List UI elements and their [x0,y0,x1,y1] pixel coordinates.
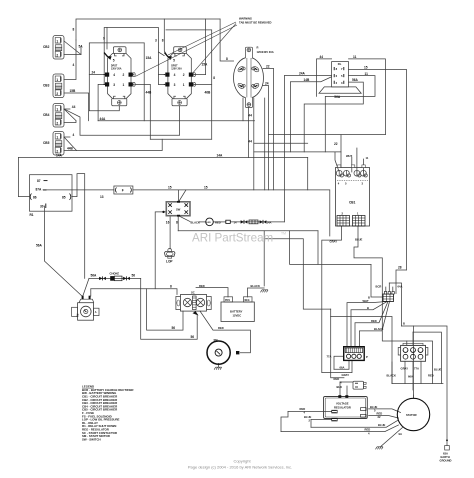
wire: relay1 pin5 drop [106,28,108,50]
wire: regulator top pins [339,382,341,396]
wire: CB1 blue bottom [354,226,382,341]
svg-text:77A: 77A [327,355,332,359]
wire: reg right red 22 [369,416,399,418]
connector CB3 [53,74,64,98]
wire: LED row [199,221,206,223]
wire: BCR pins top [385,287,387,294]
wire: C85 pin2 [64,47,81,55]
wire: SC to SM red [200,311,250,353]
svg-text:30: 30 [40,204,44,208]
svg-text:BLACK: BLACK [387,374,396,378]
svg-text:66A: 66A [340,365,345,369]
wire: relay2 tab feed a [158,52,164,56]
svg-text:BCR: BCR [376,285,382,289]
svg-text:SW: SW [176,207,181,211]
ground under SM [214,367,222,370]
wire: recep right 22 [263,69,274,190]
screws [242,67,245,70]
svg-text:POS: POS [225,300,230,302]
svg-text:56A: 56A [334,95,341,99]
svg-text:15: 15 [364,65,368,69]
wire: recep bottom drop 1 [242,98,244,121]
svg-text:GRAY: GRAY [342,373,350,377]
svg-text:8: 8 [226,57,228,61]
wire: 15 line junction riser / 24A drop [283,76,285,222]
wire: stator top into circle [412,395,414,398]
svg-text:15: 15 [204,186,208,190]
top screw terminals [336,170,367,177]
wire: H bus y=151.9 [254,151,341,153]
wire: relay1 pin1 44B [135,84,150,139]
svg-text:GROUND: GROUND [440,459,452,463]
svg-text:22: 22 [378,415,381,419]
wire: 8 line to SC [91,289,177,295]
slot TL [237,66,245,73]
svg-text:14A: 14A [56,153,63,157]
svg-text:WARNING: WARNING [239,17,252,21]
svg-text:22: 22 [266,64,270,68]
svg-text:RED: RED [428,374,434,378]
svg-text:28: 28 [398,266,402,270]
wire: blue 2 drop [310,420,312,428]
svg-text:RED: RED [377,412,383,416]
fuel solenoid FS [72,296,99,321]
regulator connector plug [334,377,367,389]
svg-text:11: 11 [353,55,357,59]
svg-text:16: 16 [166,221,170,225]
svg-text:56A: 56A [91,274,98,278]
svg-text:4: 4 [73,133,75,137]
wire: BCR pin right [392,287,394,294]
svg-text:CHOKE: CHOKE [110,271,120,275]
wire: regulator left blue 2 [311,419,332,421]
svg-text:14A: 14A [267,220,272,224]
svg-text:44: 44 [320,55,324,59]
svg-text:R: R [257,45,259,49]
wire: CB1 terminal 5 feed [351,157,353,172]
wire: harness box stub [330,309,332,316]
wire: cross H 143 [254,142,308,144]
wire: C85 pin1 diagonal [64,41,81,55]
svg-text:CB3: CB3 [43,84,50,88]
wire: SM ground stub [218,363,220,367]
wire: relay2 loop top [158,74,163,76]
wire: CB1 terminal 3 feed [362,159,364,172]
wire: regulator left red 4 [288,411,332,413]
svg-text:RED: RED [199,284,205,288]
wire: relay1 pin4 [89,74,103,76]
wire: relay2 pin2 [195,19,206,75]
svg-text:56: 56 [191,335,195,339]
wire: right conn box top [413,332,441,383]
connector CB4 [53,104,64,128]
svg-text:BLUE: BLUE [434,367,442,371]
wire: relay loop top y=27.5 [104,28,158,85]
wire: SW top riser [178,190,180,202]
svg-text:85: 85 [62,195,66,199]
wire: SW diagonal riser [179,190,187,202]
wire: SW bottom left 16 [169,216,171,249]
svg-text:15: 15 [168,186,172,190]
svg-text:LOP: LOP [166,260,173,264]
svg-text:77A: 77A [414,366,419,370]
wire: C83 pin1 diagonal [64,109,76,121]
wire: RL 11 wrap loop [325,76,375,152]
svg-text:8: 8 [176,221,178,225]
svg-text:B: B [403,321,405,325]
wire: recep bottom drop 3 [264,98,266,190]
wire: C86 pin1 [64,136,70,138]
svg-text:EARTH: EARTH [441,455,450,459]
svg-text:CB4: CB4 [43,113,50,117]
wire: CB1 22 feed [340,135,342,168]
wire: right conn bottom 66A [412,361,414,390]
wire: bottom H under conns [392,383,443,385]
svg-text:56A: 56A [36,244,43,248]
wire: RL 56A right [304,82,363,152]
svg-text:B: B [368,295,370,299]
wire: H y=134.6 to CB1 [269,134,386,136]
voltage regulator [300,395,386,435]
wire: 14A led line [230,221,284,223]
connector P (left) [327,347,369,377]
wire: recep bottom drop 2 [253,98,255,190]
wire: CB1 gray bottom [322,226,352,373]
wire: SC red to battery [196,288,228,297]
wire: SW left [155,212,166,289]
wire: RL 15 right long [349,69,407,270]
wire: relay2 pin3 stub [158,83,163,85]
svg-text:RED: RED [365,428,371,432]
svg-text:BLUE: BLUE [370,405,378,409]
svg-text:B: B [367,306,369,310]
LOP low oil pressure sender [164,248,175,263]
wire: relay1 pin3 [98,84,103,120]
svg-text:RED: RED [334,377,340,381]
slot BL [237,82,245,89]
wire: P conn left 77A [334,356,344,369]
svg-text:LED: LED [206,222,211,224]
svg-text:22: 22 [334,142,338,146]
relay K2 [164,47,196,106]
svg-text:RED: RED [371,319,377,323]
svg-text:NEG: NEG [245,300,250,302]
wire: R1-30 down [44,206,82,297]
legend [82,385,134,442]
wire: BCR fan B [351,302,387,347]
wire: BCR top feed [396,270,406,294]
wire: relay2 tab feed [164,19,166,55]
wire: drop to battery ground [263,231,265,286]
svg-text:BATTERY: BATTERY [230,310,243,314]
warning note [135,17,271,77]
wire: choke drop to SM area [141,278,198,339]
svg-text:86: 86 [33,195,37,199]
wire: harness box top/right [331,317,392,384]
svg-text:11: 11 [365,72,369,76]
svg-text:BLACK: BLACK [374,327,383,331]
LED indicator [191,218,272,226]
wire: black riser left of conn [391,362,393,384]
svg-text:RL: RL [338,62,342,66]
svg-text:RED: RED [215,220,221,224]
wire: bottom red 4 to stator [281,425,399,432]
wire: right conn top pin 2 [406,341,408,345]
wire: top bus y=19 [76,19,220,40]
svg-text:66A: 66A [408,375,413,379]
wire: relay2 pin1 46B [195,83,212,85]
svg-text:9A: 9A [399,432,402,436]
wire: battery net to harness box [264,239,331,309]
wire: C86 pin2 44B [64,139,162,150]
svg-text:BLACK: BLACK [191,220,200,224]
wire: 14A long bus [18,157,307,159]
wire: R1-85 right [72,174,85,279]
svg-text:BLUE: BLUE [304,415,312,419]
svg-text:RED: RED [300,407,306,411]
svg-text:14A: 14A [217,153,224,157]
wire: CB1 top feeds [335,152,339,171]
svg-text:BLUE: BLUE [355,238,363,242]
wire: battery neg black to gnd [248,288,265,297]
wire: 14A to R1-86 [18,158,29,197]
svg-text:CB1: CB1 [349,201,356,205]
starter motor SM [207,338,239,370]
svg-text:14: 14 [234,220,237,224]
svg-text:15B: 15B [70,89,77,93]
svg-text:RED: RED [218,326,224,330]
wire: C84 pin2 15B [64,93,89,121]
bottom lug 1 [353,211,366,226]
connector arrows on led line [241,220,248,224]
wire: SW bottom to LED [179,216,191,222]
battery [221,284,268,322]
wire: right conn bottoms [404,361,406,383]
wire: reg plug pin 2 [346,386,348,396]
svg-text:SW - SWITCH: SW - SWITCH [82,437,101,441]
start contactor SC [176,284,211,316]
wire: recep right 24 [263,86,269,190]
svg-text:56: 56 [132,274,136,278]
svg-text:44: 44 [72,105,76,109]
svg-text:63A: 63A [443,451,448,455]
svg-text:56A: 56A [352,78,359,82]
svg-text:9: 9 [103,36,105,40]
svg-text:R1: R1 [30,213,34,217]
stator [376,398,430,449]
wire: jog x289 to gray riser [290,231,371,265]
svg-text:BLUE: BLUE [378,423,386,427]
wire: recep bottom drop tab [248,108,250,158]
wire: 14A riser to 15 line [308,158,330,237]
battery charge rectifier BCR [363,285,406,332]
wire: right conn bottom RED [420,361,422,383]
svg-text:56: 56 [172,326,176,330]
wire: 87A to fuse to 15 line [43,189,114,191]
wire: BCR fan WHT [347,302,386,347]
svg-text:44B: 44B [146,90,153,94]
svg-text:BLK: BLK [337,385,343,389]
wire: stator top feed [412,326,414,398]
svg-text:VOLTAGE: VOLTAGE [336,401,349,405]
wire: blue loop to right conn [383,341,433,384]
svg-text:WHT: WHT [346,154,352,158]
wire: 8 line drop to FS pin2 [90,289,92,296]
svg-text:ARI PartStream: ARI PartStream [192,232,273,245]
svg-text:Copyright: Copyright [233,459,251,464]
wire: riser to receptacle pin8 [220,19,234,61]
svg-text:8: 8 [213,76,215,80]
svg-text:87: 87 [37,179,41,183]
right pins [361,408,367,411]
svg-text:TAB MUST BE REMOVED: TAB MUST BE REMOVED [239,21,272,25]
relay RL [299,55,368,99]
svg-text:8: 8 [73,27,75,31]
svg-text:15A: 15A [202,62,209,66]
svg-text:44: 44 [248,140,252,144]
svg-text:WHT: WHT [363,299,369,303]
svg-text:64A: 64A [398,285,403,289]
svg-text:Page design (c) 2004 - 2016 by: Page design (c) 2004 - 2016 by ARI Netwo… [188,465,292,470]
svg-text:12VDC: 12VDC [233,314,242,318]
svg-text:STATOR: STATOR [406,413,417,417]
connector (right, engine harness) [387,343,442,378]
wire: BCR pin mid [388,283,390,294]
slot BR [252,82,260,89]
relay K1 [104,47,136,106]
wire: relay2 bottom ear to C83 [64,106,180,136]
wire: reg right blue 5 [369,409,401,413]
wire: relay2 loop top [166,30,212,139]
wire: bottom blue to stator [311,421,398,428]
svg-text:46B: 46B [205,90,212,94]
warning arrow to relay2 pin2 [192,24,236,74]
wire: 15 line fuse to riser [133,189,308,191]
wire: right conn top pin [412,332,414,345]
svg-text:13: 13 [100,195,104,199]
svg-text:SC: SC [191,290,195,294]
ground at battery [261,290,269,293]
choke solenoid [91,271,224,338]
svg-text:24: 24 [265,81,269,85]
connector CB2 [53,36,64,60]
svg-text:15A: 15A [146,56,153,60]
svg-text:8: 8 [170,284,172,288]
svg-text:4: 4 [73,63,75,67]
wire: B to earth and stator top [402,326,448,446]
svg-text:5A: 5A [79,44,84,48]
wire: RL 24A feed [284,75,331,77]
wire: C83 pin2 diag [64,121,76,123]
wire: 44B jog [150,138,211,140]
wire: RL 14B feed [290,77,331,152]
stator ground [376,447,384,450]
wire: BCR fan RED [355,302,388,347]
wire: SW bottom riser [177,216,179,231]
wire: reg plug lead [340,381,353,383]
wire: 44A bus [98,120,254,122]
bottom lug 2 [337,211,350,226]
svg-text:87A: 87A [36,188,43,192]
svg-text:3: 3 [155,39,157,43]
svg-text:44A: 44A [100,117,107,121]
wire: BCR fan BLACK [359,302,389,347]
wire: C86 pin1 diagonal [64,137,77,151]
wire: BCR 64A loop to earth line [389,283,401,326]
svg-text:TM: TM [281,232,286,236]
svg-text:GRAY: GRAY [330,240,338,244]
wire: SC coil drop left [147,289,183,330]
relay R1 [30,175,73,217]
svg-text:FS: FS [75,314,78,317]
wire: C84 pin1 [64,40,76,80]
left pins [332,411,337,421]
wire: FS pin1 diagonal to choke line [83,278,89,296]
warning arrow to relay1 pin2 [135,25,237,77]
wire: BCR left B [371,264,383,297]
circuit breaker CB1 [248,64,401,269]
switch SW [162,201,190,225]
wire: junction drop x318 [317,231,319,265]
svg-text:24: 24 [92,71,96,75]
svg-text:14B: 14B [304,78,311,82]
wire: choke line [89,277,141,279]
receptacle 120/240V 30A [234,45,274,107]
RL flange trapezoid [319,87,361,93]
fuse F [100,186,208,199]
svg-text:8: 8 [162,39,164,43]
wire: 15A drop [143,43,145,121]
svg-text:GRAY: GRAY [401,366,409,370]
wire: RL 44 feed [317,59,332,97]
wire: battery black box [178,230,318,232]
wire: CB1 terminal feed WHT [356,148,358,172]
svg-text:24A: 24A [299,72,306,76]
connector CB5 [53,132,64,156]
earth ground lug [440,439,452,462]
wire: RL 11 top right [349,59,386,135]
wire: stator ground [381,428,403,447]
wire: red 4 left loop [281,412,288,432]
svg-text:CB2: CB2 [43,45,50,49]
warning arrow to relay2 tab [168,22,236,55]
svg-text:REGULATOR: REGULATOR [334,405,351,409]
svg-text:CB5: CB5 [43,141,50,145]
wire: LED to resistor [213,221,226,223]
slot TR [252,66,260,73]
svg-text:120/240V 30A: 120/240V 30A [257,50,274,54]
svg-text:44: 44 [248,114,252,118]
svg-text:F: F [122,189,124,193]
wire: C83 pin1 stub [64,108,70,110]
wire: harness box left side [331,317,344,378]
svg-text:A: A [95,311,97,314]
svg-text:BLACK: BLACK [251,284,260,288]
wire: P conn bottom 66A [334,360,349,369]
svg-text:44B: 44B [67,146,74,150]
svg-text:P: P [366,355,368,359]
wire: relay1 outer loop [89,43,144,111]
